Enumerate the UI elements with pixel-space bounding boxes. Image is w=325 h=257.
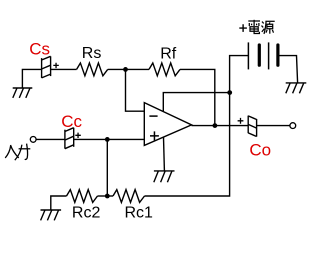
svg-text:Co: Co [249,140,271,159]
kanji 入 (input label) [5,145,19,158]
resistor Rs [77,63,108,76]
plus mark for Co [238,118,244,124]
capacitor Cc [65,128,74,149]
resistor Rf [149,63,180,76]
wire Cs ground riser and top-left wire [22,69,41,88]
wire Cc to non-inverting input [74,138,145,140]
op-amp minus symbol [149,115,157,117]
op-amp plus symbol [150,131,159,140]
ground (Cs ground, top left) [13,88,33,98]
wire node A to inverting input [126,69,145,111]
op-amp V- pin wire to ground [163,137,166,171]
svg-text:Rc1: Rc1 [125,205,154,222]
supply rail junction dot [227,90,232,95]
wire Cs to Rs [51,68,77,70]
battery B1 plates [248,42,278,69]
svg-text:Rs: Rs [82,45,102,62]
wire Co to output terminal [257,125,290,127]
input node junction dot [105,137,110,142]
wire Rc2 to ground [51,196,67,210]
bias node junction dot [105,194,110,199]
capacitor Co [248,116,256,137]
resistor Rc2 [67,190,98,203]
svg-text:Rc2: Rc2 [72,205,101,222]
plus mark for Cs [53,63,59,68]
output wire from op-amp to Co [192,125,249,127]
svg-text:Cc: Cc [61,112,82,131]
input terminal [30,137,36,143]
ground (op-amp) [154,171,175,182]
wire input terminal to Cc [36,138,65,140]
plus mark battery label [239,24,247,32]
kanji 電 (power label) [248,20,260,34]
op-amp V+ pin wire to supply rail [163,93,229,112]
op-amp U1 triangle [144,103,191,146]
battery wire left + supply bus + bottom rail [145,56,249,196]
ground (battery) [286,83,307,93]
svg-text:Rf: Rf [160,45,177,62]
battery wire right to ground [278,56,298,83]
kanji 源 (power label) [262,21,275,34]
capacitor Cs [42,56,51,78]
plus mark for Cc [75,133,81,138]
kanji 力 (input label) [15,144,30,161]
ground (Rc2) [41,210,62,220]
output terminal [290,123,296,129]
wire Rs to Rf through node A [108,68,149,70]
resistor Rc1 [113,190,145,203]
svg-text:Cs: Cs [29,40,50,59]
node A junction dot [123,67,128,72]
output junction dot [213,123,218,128]
wire Rf to output node [180,69,215,125]
bias riser wire [106,139,108,196]
wire Rc2 to node [98,195,114,197]
